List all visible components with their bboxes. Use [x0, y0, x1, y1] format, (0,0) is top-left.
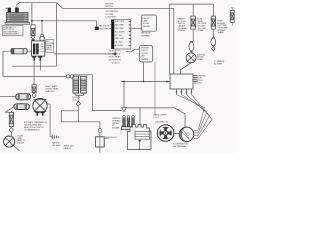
A/C compressor clutch M1: [5, 8, 30, 25]
A/C thermo lamp symbol: [186, 53, 196, 63]
svg-text:S4 GRN W: S4 GRN W: [112, 60, 121, 62]
svg-text:FNDR: FNDR: [46, 49, 52, 51]
wire: lower bus y76 with bead connector: [3, 75, 66, 77]
distributor housing (side view): [128, 125, 152, 151]
wire: capacitor top bus: [73, 74, 92, 76]
fuse F2: [211, 16, 215, 29]
svg-text:S5 BLU R: S5 BLU R: [112, 62, 121, 64]
wire: module harness chevron 3: [187, 95, 210, 136]
svg-text:S1 BLK TR: S1 BLK TR: [112, 51, 122, 53]
wire: vertical rail x155 to distributor: [154, 62, 156, 116]
wire: relay bolt2 down: [39, 61, 41, 71]
wire: bus drop to 3-pin connector: [123, 82, 125, 108]
wire: capacitors right rail down: [92, 75, 121, 111]
svg-text:STARTER: STARTER: [45, 90, 54, 93]
wire: to battery ground: [50, 104, 52, 137]
svg-text:GRD 1 BLK: GRD 1 BLK: [115, 21, 125, 23]
starter relay (circle with X brace): [33, 98, 47, 115]
ignition switch connector body: [111, 19, 131, 49]
label: horn symbol right: [17, 136, 26, 145]
svg-text:GROUND: GROUND: [52, 145, 61, 147]
svg-text:BLOWER: BLOWER: [214, 63, 223, 65]
wire: coil tower branch: [139, 108, 141, 124]
key-in switch label box: [141, 15, 157, 37]
label: bottom centre note: [64, 145, 76, 150]
dual ballast resistor / capacitors: [73, 76, 86, 93]
svg-text:ENGINE: ENGINE: [17, 143, 25, 145]
svg-text:ON PANEL: ON PANEL: [141, 34, 151, 37]
wire: module harness chevron 4: [192, 95, 213, 139]
svg-text:RED/GRN 3: RED/GRN 3: [99, 28, 110, 30]
wire: bead to capacitors: [74, 75, 79, 77]
coil bus wire y81.5: [121, 81, 170, 83]
module right-side pins: [193, 76, 198, 82]
svg-text:10 AMP: 10 AMP: [197, 58, 204, 61]
A/C clutch relay K1: [32, 41, 45, 56]
svg-text:BLK/WHT 2: BLK/WHT 2: [99, 26, 110, 28]
wire: drop to fuse 2: [212, 4, 214, 16]
ballast resistor R2 (cylinder): [6, 104, 30, 112]
relay terminal bolt 1: [32, 56, 36, 61]
capacitor C1 (noise suppressor): [11, 49, 27, 54]
instruction label box (attached to bracket): [3, 26, 24, 36]
wire: solenoid chain down: [99, 122, 101, 137]
distributor cap (top view): [157, 125, 180, 142]
wire: relay to ignition switch: [54, 53, 116, 55]
wire: capacitor to relay: [27, 50, 32, 52]
wire: drop to in-line fuse at x32: [31, 3, 33, 25]
node: bus junction 3: [166, 81, 168, 83]
wire: coil HT cable to distributor: [127, 108, 185, 127]
fuse F3: [230, 8, 234, 26]
ignition switch lower terminal rows: [109, 51, 122, 65]
svg-text:30 AMP: 30 AMP: [218, 31, 225, 34]
label: fuse F1 left: [178, 18, 188, 32]
distributor cable connector (side): [179, 127, 198, 141]
wire: switch to key-in box: [131, 27, 142, 29]
ignition switch left stubs BAT/IGN: [110, 25, 112, 29]
junction at switch end: [114, 53, 117, 56]
svg-text:ACC 4 BRN: ACC 4 BRN: [115, 30, 125, 33]
wire: drop to fuse 1: [192, 4, 194, 16]
label: above distributor cap: [153, 115, 168, 124]
label: automatic transmission switch: [24, 121, 47, 132]
label: right rear of engine: [45, 85, 59, 93]
connector diamond under F5: [9, 127, 13, 132]
relay terminal bolt 2: [38, 56, 42, 61]
module bottom pins with nodes: [176, 89, 193, 95]
fuse F1: [191, 16, 196, 29]
wire: clutch feed up to top bus: [17, 3, 57, 8]
battery ground strap symbol: [52, 135, 58, 139]
wire: relay bolt1 down: [33, 61, 35, 85]
svg-text:IGN 6 GRN: IGN 6 GRN: [115, 38, 125, 40]
svg-text:SWITCH: SWITCH: [105, 6, 113, 8]
label: fuse F2 right: [218, 21, 229, 34]
in-line fuse F4 (clutch fuse): [31, 25, 35, 42]
wire: horizontal link y66: [12, 65, 57, 67]
top-right feed bus: [170, 4, 214, 74]
in-line fuse on starter relay wire: [32, 85, 36, 93]
svg-text:MODULE: MODULE: [194, 82, 203, 84]
wire: starter relay to ground rail: [47, 103, 50, 105]
wire: F5 to horn symbol: [10, 133, 12, 136]
wire: capacitor bottoms joined: [76, 93, 84, 101]
svg-text:IN DASH: IN DASH: [178, 29, 186, 32]
relay label box: [46, 40, 55, 53]
label: module right: [194, 75, 206, 84]
connector diamond to starter relay: [32, 93, 36, 98]
svg-text:LAMP: LAMP: [143, 20, 149, 23]
svg-text:MOUNTING BRKT: MOUNTING BRKT: [3, 33, 19, 35]
in-line fuse F5 (lower-left): [9, 111, 13, 127]
tachometer / coil feed box: [140, 46, 153, 63]
in-line connector beads: [67, 75, 70, 78]
connector arrow into distributor plug: [122, 107, 127, 112]
svg-text:ENGINE: ENGINE: [112, 127, 120, 129]
wire: top bus corner down-diagonal then to right rail: [57, 3, 174, 74]
svg-text:IGN 3 WHT: IGN 3 WHT: [115, 28, 125, 30]
svg-text:ON TRANSMISSION: ON TRANSMISSION: [24, 129, 40, 132]
svg-text:ST 5 YEL: ST 5 YEL: [115, 35, 124, 37]
svg-text:TK 7 BLU: TK 7 BLU: [115, 42, 123, 44]
indicator bulb on relay: [40, 21, 45, 42]
in-line connector oval: [98, 128, 101, 133]
wire: down-left-down to starter solenoid: [61, 106, 100, 122]
wire: lamp to module box: [180, 63, 191, 74]
svg-text:IGNITION COIL: IGNITION COIL: [105, 137, 119, 139]
node: bus junction 1: [123, 81, 125, 83]
svg-text:DISTRIBUTOR: DISTRIBUTOR: [155, 122, 168, 124]
node: junction at fuse drop: [31, 20, 33, 22]
svg-text:(CONN SIDE): (CONN SIDE): [105, 16, 117, 18]
wire: switch row to tach box: [126, 49, 140, 52]
wire B: feed to ignition switch BAT: [32, 21, 97, 27]
label: left of 3-pin connector: [112, 118, 121, 129]
in-line fuse holder 2: [211, 37, 216, 46]
svg-text:BUZZER: BUZZER: [143, 26, 151, 28]
connector diamond under capacitors: [76, 101, 80, 106]
wire: fuse1 chain down: [192, 29, 194, 42]
svg-text:CAP TERMINAL: CAP TERMINAL: [173, 145, 187, 148]
wire: module harness chevron 2: [182, 95, 208, 133]
ignition switch connector text header: [105, 4, 118, 19]
label: lamp right: [197, 53, 206, 61]
svg-text:25 AMP: 25 AMP: [197, 29, 204, 32]
wire: capacitor lead to left rail: [3, 51, 11, 76]
svg-text:S3 YEL BK: S3 YEL BK: [112, 57, 122, 59]
wire: coil box to bottom edge: [99, 147, 101, 153]
svg-text:(2) WIRE: (2) WIRE: [141, 59, 149, 61]
wire: module harness chevron 1: [177, 95, 205, 131]
node: junction bulb branch: [41, 20, 43, 22]
svg-text:S2 RED W: S2 RED W: [112, 54, 121, 56]
connector terminal at ignition switch: [95, 27, 99, 30]
connector arrow under fuse holder 2: [212, 46, 216, 51]
ignition control module box: [170, 74, 193, 89]
svg-text:BAT 2 RED: BAT 2 RED: [115, 24, 125, 27]
node: bus junction 2: [143, 81, 145, 83]
wire: fuse2 chain down: [212, 29, 214, 38]
svg-text:AC 8 PNK: AC 8 PNK: [115, 44, 124, 47]
3-pin distributor connector: [121, 116, 135, 130]
wire: drop from corner to relay area: [56, 3, 58, 66]
label: fuse F1 right: [197, 19, 207, 32]
ballast resistor R1 (cylinder): [0, 94, 31, 100]
horn / sender symbol (circle with X): [4, 136, 20, 151]
wire: left clutch terminal stub: [5, 7, 7, 9]
ignition coil (ballast) box: [96, 137, 119, 147]
label: to distributor: [173, 144, 189, 148]
svg-text:PAGE 14: PAGE 14: [64, 147, 72, 150]
wire: tach box down to coil bus: [143, 62, 145, 82]
in-line fuse holder (capsule): [189, 41, 194, 52]
